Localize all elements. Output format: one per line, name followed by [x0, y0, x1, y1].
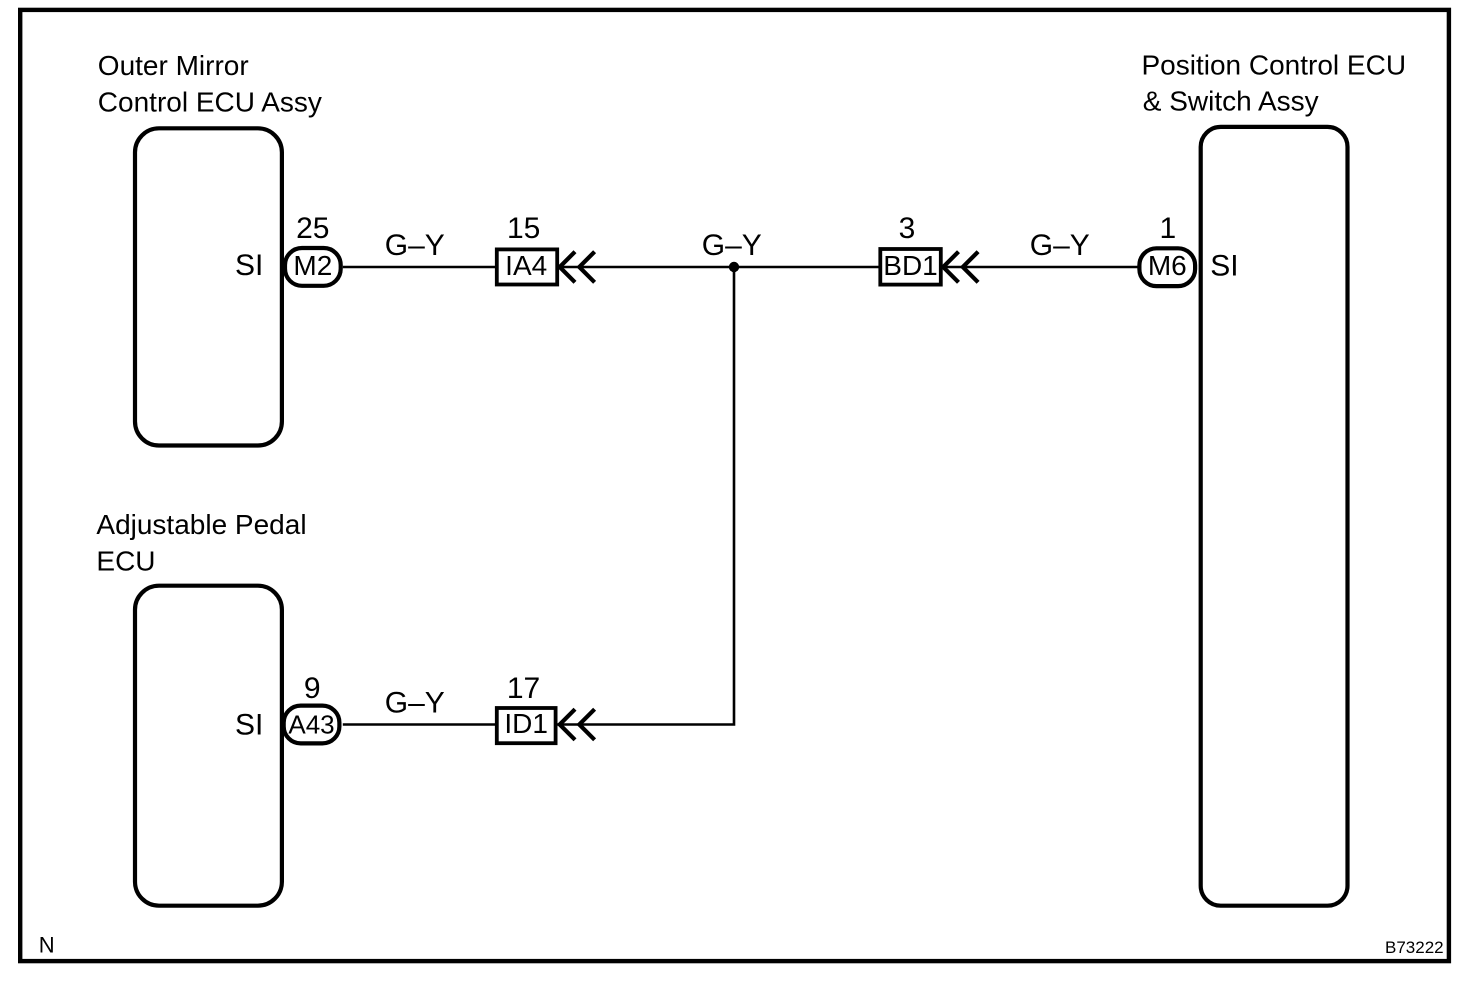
svg-text:15: 15: [507, 212, 540, 245]
label U2: Position Control ECU and Switch Assy: [1142, 50, 1407, 117]
svg-text:G–Y: G–Y: [385, 687, 445, 720]
svg-text:SI: SI: [235, 249, 263, 282]
connector arrows at BD1: [943, 252, 978, 283]
svg-text:25: 25: [296, 212, 329, 245]
svg-text:9: 9: [304, 672, 321, 705]
svg-text:17: 17: [507, 672, 540, 705]
svg-text:G–Y: G–Y: [1030, 229, 1090, 262]
connector A43: [284, 706, 340, 744]
connector arrows at ID1: [560, 709, 595, 740]
svg-text:M2: M2: [293, 250, 332, 281]
svg-text:G–Y: G–Y: [702, 229, 762, 262]
label U1: Outer Mirror Control ECU Assy: [98, 50, 322, 118]
svg-text:ECU: ECU: [96, 546, 155, 577]
svg-text:M6: M6: [1148, 250, 1187, 281]
svg-text:& Switch Assy: & Switch Assy: [1143, 86, 1319, 117]
svg-text:N: N: [39, 932, 55, 957]
junction connector ID1: [497, 708, 556, 743]
svg-text:SI: SI: [235, 709, 263, 742]
svg-text:Control ECU Assy: Control ECU Assy: [98, 86, 322, 117]
svg-text:Outer Mirror: Outer Mirror: [98, 50, 249, 81]
wire W4 G-Y (A43 to ID1): [343, 723, 497, 726]
svg-text:B73222: B73222: [1385, 938, 1444, 957]
svg-text:BD1: BD1: [883, 250, 937, 281]
svg-text:A43: A43: [288, 710, 334, 740]
junction connector BD1: [880, 249, 941, 285]
wire W3 (BD1 to M6): [941, 266, 1138, 269]
junction connector IA4: [497, 249, 557, 284]
svg-text:G–Y: G–Y: [385, 229, 445, 262]
svg-text:ID1: ID1: [504, 708, 548, 739]
connector arrows at IA4: [560, 252, 595, 283]
connector M2: [285, 248, 341, 286]
ECU box U3: Adjustable Pedal ECU: [135, 586, 282, 906]
connector M6: [1139, 248, 1195, 286]
wire W5 (ID1 to node J1): [557, 267, 734, 725]
ECU box U2: Position Control ECU and Switch Assy: [1201, 127, 1348, 906]
svg-text:SI: SI: [1210, 250, 1238, 283]
node junction J1: [729, 262, 739, 272]
svg-text:1: 1: [1159, 212, 1176, 245]
svg-text:IA4: IA4: [505, 250, 547, 281]
svg-text:Position Control ECU: Position Control ECU: [1142, 50, 1407, 81]
wire W1 G-Y (M2 to IA4): [343, 266, 497, 269]
svg-text:Adjustable Pedal: Adjustable Pedal: [96, 509, 306, 540]
ECU box U1: Outer Mirror Control ECU Assy: [135, 128, 282, 445]
label U3: Adjustable Pedal ECU: [96, 509, 306, 577]
svg-text:3: 3: [899, 212, 916, 245]
wire W2 (IA4 to BD1 through node J1): [559, 266, 881, 269]
